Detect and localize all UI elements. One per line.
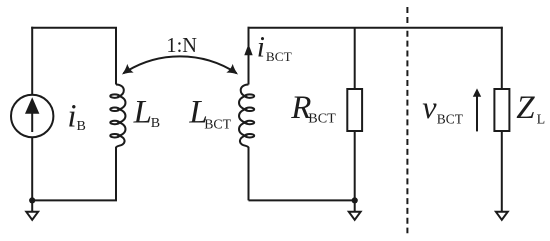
svg-text:BCT: BCT xyxy=(437,113,464,128)
wire: left loop bottom xyxy=(32,199,117,201)
ground G1 triangle xyxy=(26,212,38,220)
wire: R_BCT branch lower xyxy=(354,131,356,200)
svg-text:L: L xyxy=(133,95,152,131)
inductor L_B eye 3 xyxy=(110,121,119,125)
current source I1 circle xyxy=(11,95,53,137)
current source I1 arrow head xyxy=(25,97,39,114)
transformer arrow head right xyxy=(226,64,241,79)
dashed boundary line lower xyxy=(406,31,408,234)
resistor R_BCT body xyxy=(347,89,362,131)
ground G3 triangle xyxy=(496,212,508,220)
wire: left loop left lower xyxy=(31,137,33,200)
dashed boundary line upper xyxy=(406,7,408,23)
svg-text:1:N: 1:N xyxy=(166,33,197,57)
svg-text:i: i xyxy=(67,98,76,134)
ground G2 stub xyxy=(354,200,356,211)
ground G2 triangle xyxy=(349,212,361,220)
voltage arrow v_BCT head xyxy=(473,88,481,96)
impedance Z_L body xyxy=(494,89,509,131)
current source I1 arrow shaft xyxy=(31,113,33,133)
transformer coupling arc 1:N xyxy=(124,56,237,73)
wire: Z_L branch lower xyxy=(501,131,503,211)
inductor L_BCT eye 4 xyxy=(245,134,254,138)
svg-text:BCT: BCT xyxy=(204,117,231,132)
svg-text:B: B xyxy=(151,116,160,131)
svg-text:Z: Z xyxy=(516,90,535,126)
voltage arrow v_BCT shaft xyxy=(476,96,478,132)
inductor L_B eye 1 xyxy=(110,94,119,98)
wire: left loop right lower xyxy=(115,147,117,200)
wire: L_BCT branch upper xyxy=(248,27,250,85)
inductor L_BCT coil spine (mirror of L_B) xyxy=(239,85,248,148)
wire: L_BCT branch lower xyxy=(248,147,250,200)
svg-text:BCT: BCT xyxy=(266,49,292,64)
svg-text:BCT: BCT xyxy=(308,111,336,126)
wire: right circuit bottom xyxy=(249,199,355,201)
wire: left loop left upper xyxy=(31,27,33,95)
inductor L_B eye 2 xyxy=(110,108,119,112)
svg-text:L: L xyxy=(537,113,546,128)
wire: left loop top xyxy=(31,27,117,29)
inductor L_B eye 4 xyxy=(110,134,119,138)
svg-text:B: B xyxy=(77,119,86,134)
junction node dot right xyxy=(352,197,358,203)
svg-text:v: v xyxy=(422,89,437,125)
wire: right circuit top xyxy=(248,27,503,29)
inductor L_BCT eye 2 xyxy=(245,108,254,112)
wire: Z_L branch upper xyxy=(501,27,503,89)
current arrow i_BCT head xyxy=(244,44,252,55)
svg-text:i: i xyxy=(257,31,265,63)
junction node dot left xyxy=(29,197,35,203)
ground G1 stub xyxy=(31,200,33,211)
wire: left loop right upper xyxy=(115,28,117,85)
inductor L_BCT eye 3 xyxy=(245,121,254,125)
transformer arrow head left xyxy=(119,64,134,79)
wire: R_BCT branch upper xyxy=(354,28,356,89)
inductor L_BCT eye 1 xyxy=(245,94,254,98)
inductor L_B coil spine xyxy=(116,85,125,148)
